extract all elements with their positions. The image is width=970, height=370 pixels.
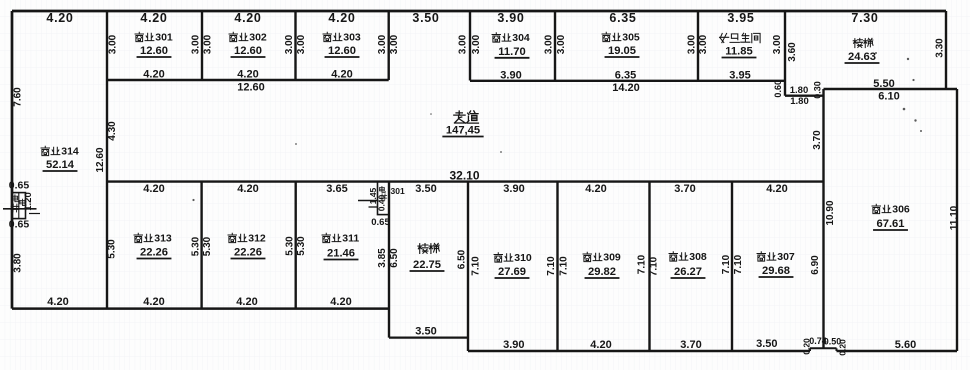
svg-text:52.14: 52.14: [46, 159, 75, 171]
svg-text:1.80: 1.80: [790, 85, 809, 96]
utility shaft box at top of room 311: [378, 182, 390, 215]
svg-text:3.00: 3.00: [556, 34, 567, 54]
svg-text:0.65: 0.65: [9, 180, 30, 192]
room label 305: [602, 32, 610, 41]
svg-text:5.30: 5.30: [191, 236, 202, 256]
svg-text:67.61: 67.61: [877, 218, 905, 230]
svg-text:3.00: 3.00: [108, 34, 119, 54]
svg-text:306: 306: [892, 203, 910, 215]
svg-text:7.60: 7.60: [13, 87, 24, 107]
wall: 309/308 divider x=649.5: [648, 182, 650, 351]
svg-text:3.95: 3.95: [727, 11, 754, 25]
svg-text:4.20: 4.20: [590, 339, 611, 351]
wall: bottom of rooms 314-311 y=308.6: [12, 307, 389, 310]
svg-text:4.20: 4.20: [143, 183, 164, 195]
shaft311 strike: [358, 200, 378, 202]
svg-text:0.30: 0.30: [813, 81, 823, 99]
svg-text:7.10: 7.10: [471, 256, 482, 276]
room label restroom 女卫生间: [720, 33, 729, 42]
svg-text:3.70: 3.70: [680, 339, 701, 351]
svg-text:5.30: 5.30: [285, 236, 296, 256]
room label 302: [229, 32, 237, 41]
room label 313: [134, 233, 142, 242]
svg-text:3.00: 3.00: [471, 34, 482, 54]
svg-text:0.65: 0.65: [9, 219, 30, 231]
wall: bottom outer left part y=351: [468, 350, 810, 353]
room label stairs top 楼梯: [853, 38, 862, 47]
utility shaft inner mark: [18, 193, 20, 219]
svg-text:3.00: 3.00: [191, 34, 202, 54]
wall: bottom bump right side: [836, 348, 838, 351]
svg-text:3.50: 3.50: [415, 326, 436, 338]
corridor label 走道: [454, 111, 466, 123]
wall: corridor bottom y=181.6: [107, 180, 824, 182]
wall: bottom outer right part y=351: [837, 350, 958, 353]
svg-text:7.10: 7.10: [733, 254, 744, 274]
svg-text:4.20: 4.20: [143, 296, 164, 308]
svg-text:3.90: 3.90: [503, 183, 524, 195]
svg-text:301: 301: [391, 186, 405, 196]
wall: top outer (y=11): [12, 10, 946, 13]
svg-text:4.20: 4.20: [237, 69, 258, 81]
shaft glyph 配: [12, 195, 19, 202]
svg-text:3.00: 3.00: [698, 34, 709, 54]
svg-text:3.90: 3.90: [500, 69, 521, 81]
svg-text:6.35: 6.35: [615, 69, 636, 81]
svg-text:26.27: 26.27: [674, 266, 702, 278]
svg-text:4.20: 4.20: [328, 11, 355, 25]
shaft311 extra blob mark: [380, 194, 387, 200]
svg-text:3.00: 3.00: [687, 34, 698, 54]
wall: 301/302 divider x=202: [201, 11, 203, 80]
wall: restroom right / stairs left x=785: [784, 11, 786, 96]
svg-text:3.00: 3.00: [203, 34, 214, 54]
svg-text:312: 312: [248, 232, 266, 244]
svg-text:3.95: 3.95: [729, 70, 750, 82]
svg-text:3.70: 3.70: [674, 183, 695, 195]
svg-text:22.26: 22.26: [234, 247, 262, 259]
room label 306: [872, 204, 880, 213]
svg-text:147,45: 147,45: [446, 125, 480, 137]
svg-text:4.20: 4.20: [237, 183, 258, 195]
svg-text:3.00: 3.00: [458, 34, 469, 54]
svg-text:4.20: 4.20: [140, 11, 167, 25]
svg-text:6.50: 6.50: [389, 248, 400, 268]
svg-text:5.50: 5.50: [873, 78, 894, 90]
wall: step below restroom y=95.7: [785, 94, 824, 96]
wall: room306 left x=823.5 (runs to bottom bump): [822, 89, 824, 349]
svg-text:4.20: 4.20: [47, 296, 68, 308]
svg-text:3.00: 3.00: [284, 34, 295, 54]
svg-text:5.60: 5.60: [895, 339, 916, 351]
svg-text:6.50: 6.50: [457, 249, 468, 269]
svg-text:3.30: 3.30: [935, 38, 946, 58]
svg-text:1.80: 1.80: [790, 96, 809, 107]
svg-text:3.65: 3.65: [326, 183, 347, 195]
svg-text:12.60: 12.60: [140, 45, 168, 57]
wall: 308/307 divider x=732: [731, 182, 733, 351]
svg-text:22.26: 22.26: [140, 247, 168, 259]
shaft glyph overlap 电: [20, 199, 26, 205]
wall: room306 right x=957: [956, 89, 958, 351]
svg-text:4.30: 4.30: [107, 121, 118, 141]
svg-text:12.60: 12.60: [95, 147, 106, 172]
room label 307: [757, 252, 765, 261]
svg-text:314: 314: [61, 145, 79, 157]
wall: 310/309 divider x=557.5: [556, 182, 558, 351]
wall: room306 top y=89: [824, 88, 958, 90]
wall: 302/303 divider x=295.5: [294, 11, 296, 80]
room label 310: [494, 253, 502, 262]
svg-text:24.63: 24.63: [848, 51, 876, 63]
svg-text:4.20: 4.20: [46, 11, 73, 25]
svg-text:4.20: 4.20: [234, 11, 261, 25]
svg-text:310: 310: [514, 252, 532, 264]
svg-text:11.85: 11.85: [725, 46, 752, 58]
svg-text:307: 307: [777, 251, 795, 263]
wall: bottom bump left side: [809, 348, 811, 351]
svg-text:7.10: 7.10: [559, 256, 570, 276]
svg-text:0.65: 0.65: [371, 217, 390, 228]
svg-text:3.70: 3.70: [812, 130, 823, 150]
svg-text:21.46: 21.46: [327, 248, 355, 260]
svg-text:6.35: 6.35: [609, 11, 636, 25]
room label 301: [135, 32, 143, 41]
svg-text:3.00: 3.00: [296, 34, 307, 54]
scan noise specks: [192, 52, 922, 201]
svg-text:3.90: 3.90: [497, 11, 524, 25]
svg-text:3.00: 3.00: [772, 34, 783, 54]
svg-text:27.69: 27.69: [498, 266, 526, 278]
room label 314: [41, 146, 49, 155]
svg-text:11.10: 11.10: [949, 205, 960, 230]
svg-text:3.50: 3.50: [412, 11, 439, 25]
svg-text:4.20: 4.20: [330, 296, 351, 308]
svg-text:3.50: 3.50: [415, 183, 436, 195]
svg-text:3.80: 3.80: [13, 253, 24, 273]
svg-text:11.70: 11.70: [498, 46, 525, 58]
wall: 304/305 divider x=555: [554, 11, 556, 81]
svg-text:6.10: 6.10: [878, 91, 899, 103]
shaft strike line: [3, 208, 37, 210]
svg-text:4.20: 4.20: [766, 183, 787, 195]
svg-text:3.60: 3.60: [787, 42, 798, 62]
svg-text:3.50: 3.50: [756, 338, 777, 350]
wall: stair hall right / 310 left x=468: [467, 182, 469, 351]
svg-text:10.90: 10.90: [825, 200, 836, 225]
wall: 303 right x=388.7 (top row): [388, 11, 390, 80]
svg-text:303: 303: [343, 31, 361, 43]
wall: left outer (x=12): [11, 11, 14, 309]
svg-text:6.90: 6.90: [810, 255, 821, 275]
wall: 312/311 divider x=295.7: [295, 182, 297, 309]
svg-text:301: 301: [155, 31, 173, 43]
wall: vertical x=107 full height (314 right / 301 left / 313 left): [106, 11, 108, 309]
wall: 311 right / stair hall left x=389: [388, 182, 390, 338]
wall: bottom bump top y=348.3: [810, 347, 837, 349]
shaft tick: [29, 213, 40, 215]
svg-text:1.20: 1.20: [23, 192, 34, 211]
svg-text:7.10: 7.10: [649, 256, 660, 276]
svg-text:3.00: 3.00: [377, 34, 388, 54]
wall: 304 left x=470: [469, 11, 471, 81]
svg-text:4.20: 4.20: [331, 69, 352, 81]
wall: 313/312 divider x=201.6: [200, 182, 202, 309]
svg-text:0.20: 0.20: [838, 339, 848, 356]
room label 303: [323, 32, 331, 41]
room label 312: [228, 233, 236, 242]
room label 311: [322, 233, 330, 242]
svg-text:302: 302: [249, 31, 267, 43]
room label 304: [492, 33, 500, 42]
svg-text:3.85: 3.85: [377, 248, 388, 268]
svg-text:19.05: 19.05: [608, 45, 636, 57]
svg-text:7.10: 7.10: [546, 256, 557, 276]
wall: stair hall bottom y=337.6: [389, 337, 468, 339]
svg-text:309: 309: [603, 251, 621, 263]
room label 309: [583, 252, 591, 261]
svg-text:0.60: 0.60: [773, 80, 783, 98]
svg-text:12.60: 12.60: [328, 45, 356, 57]
wall: stairs right x=946: [945, 11, 947, 89]
wall: 305/restroom divider x=698: [697, 11, 699, 81]
utility shaft box at left wall (room 314): [12, 193, 26, 219]
svg-text:12.60: 12.60: [234, 45, 262, 57]
svg-text:308: 308: [689, 251, 707, 263]
svg-text:5.30: 5.30: [296, 236, 307, 256]
svg-text:313: 313: [154, 232, 172, 244]
svg-text:7.10: 7.10: [637, 254, 648, 274]
shaft glyph 井: [11, 204, 19, 212]
svg-text:4.20: 4.20: [585, 183, 606, 195]
svg-text:5.30: 5.30: [107, 239, 118, 259]
svg-text:29.82: 29.82: [588, 266, 616, 278]
svg-text:14.20: 14.20: [612, 82, 640, 94]
room label 308: [669, 252, 677, 261]
svg-text:12.60: 12.60: [237, 82, 265, 94]
svg-text:3.00: 3.00: [389, 34, 400, 54]
svg-text:4.20: 4.20: [143, 69, 164, 81]
svg-text:311: 311: [342, 232, 359, 244]
svg-text:29.68: 29.68: [762, 265, 790, 277]
room label stairs bottom 楼梯: [418, 244, 428, 254]
svg-text:5.30: 5.30: [202, 236, 213, 256]
svg-text:3.00: 3.00: [544, 34, 555, 54]
svg-text:4.20: 4.20: [236, 296, 257, 308]
shaft311 tiny label 电301: [380, 186, 386, 192]
svg-text:32.10: 32.10: [449, 169, 479, 183]
wall: bottom of rooms 304-restroom (y=80.8): [470, 80, 785, 82]
wall: bottom of rooms 301-303 (y=80): [107, 79, 389, 81]
svg-text:22.75: 22.75: [413, 259, 441, 271]
svg-text:7.10: 7.10: [721, 254, 732, 274]
utility shaft 311 tick: [369, 206, 378, 208]
svg-text:7.30: 7.30: [851, 11, 878, 25]
svg-text:305: 305: [622, 31, 640, 43]
svg-text:3.90: 3.90: [503, 339, 524, 351]
svg-text:304: 304: [512, 32, 530, 44]
